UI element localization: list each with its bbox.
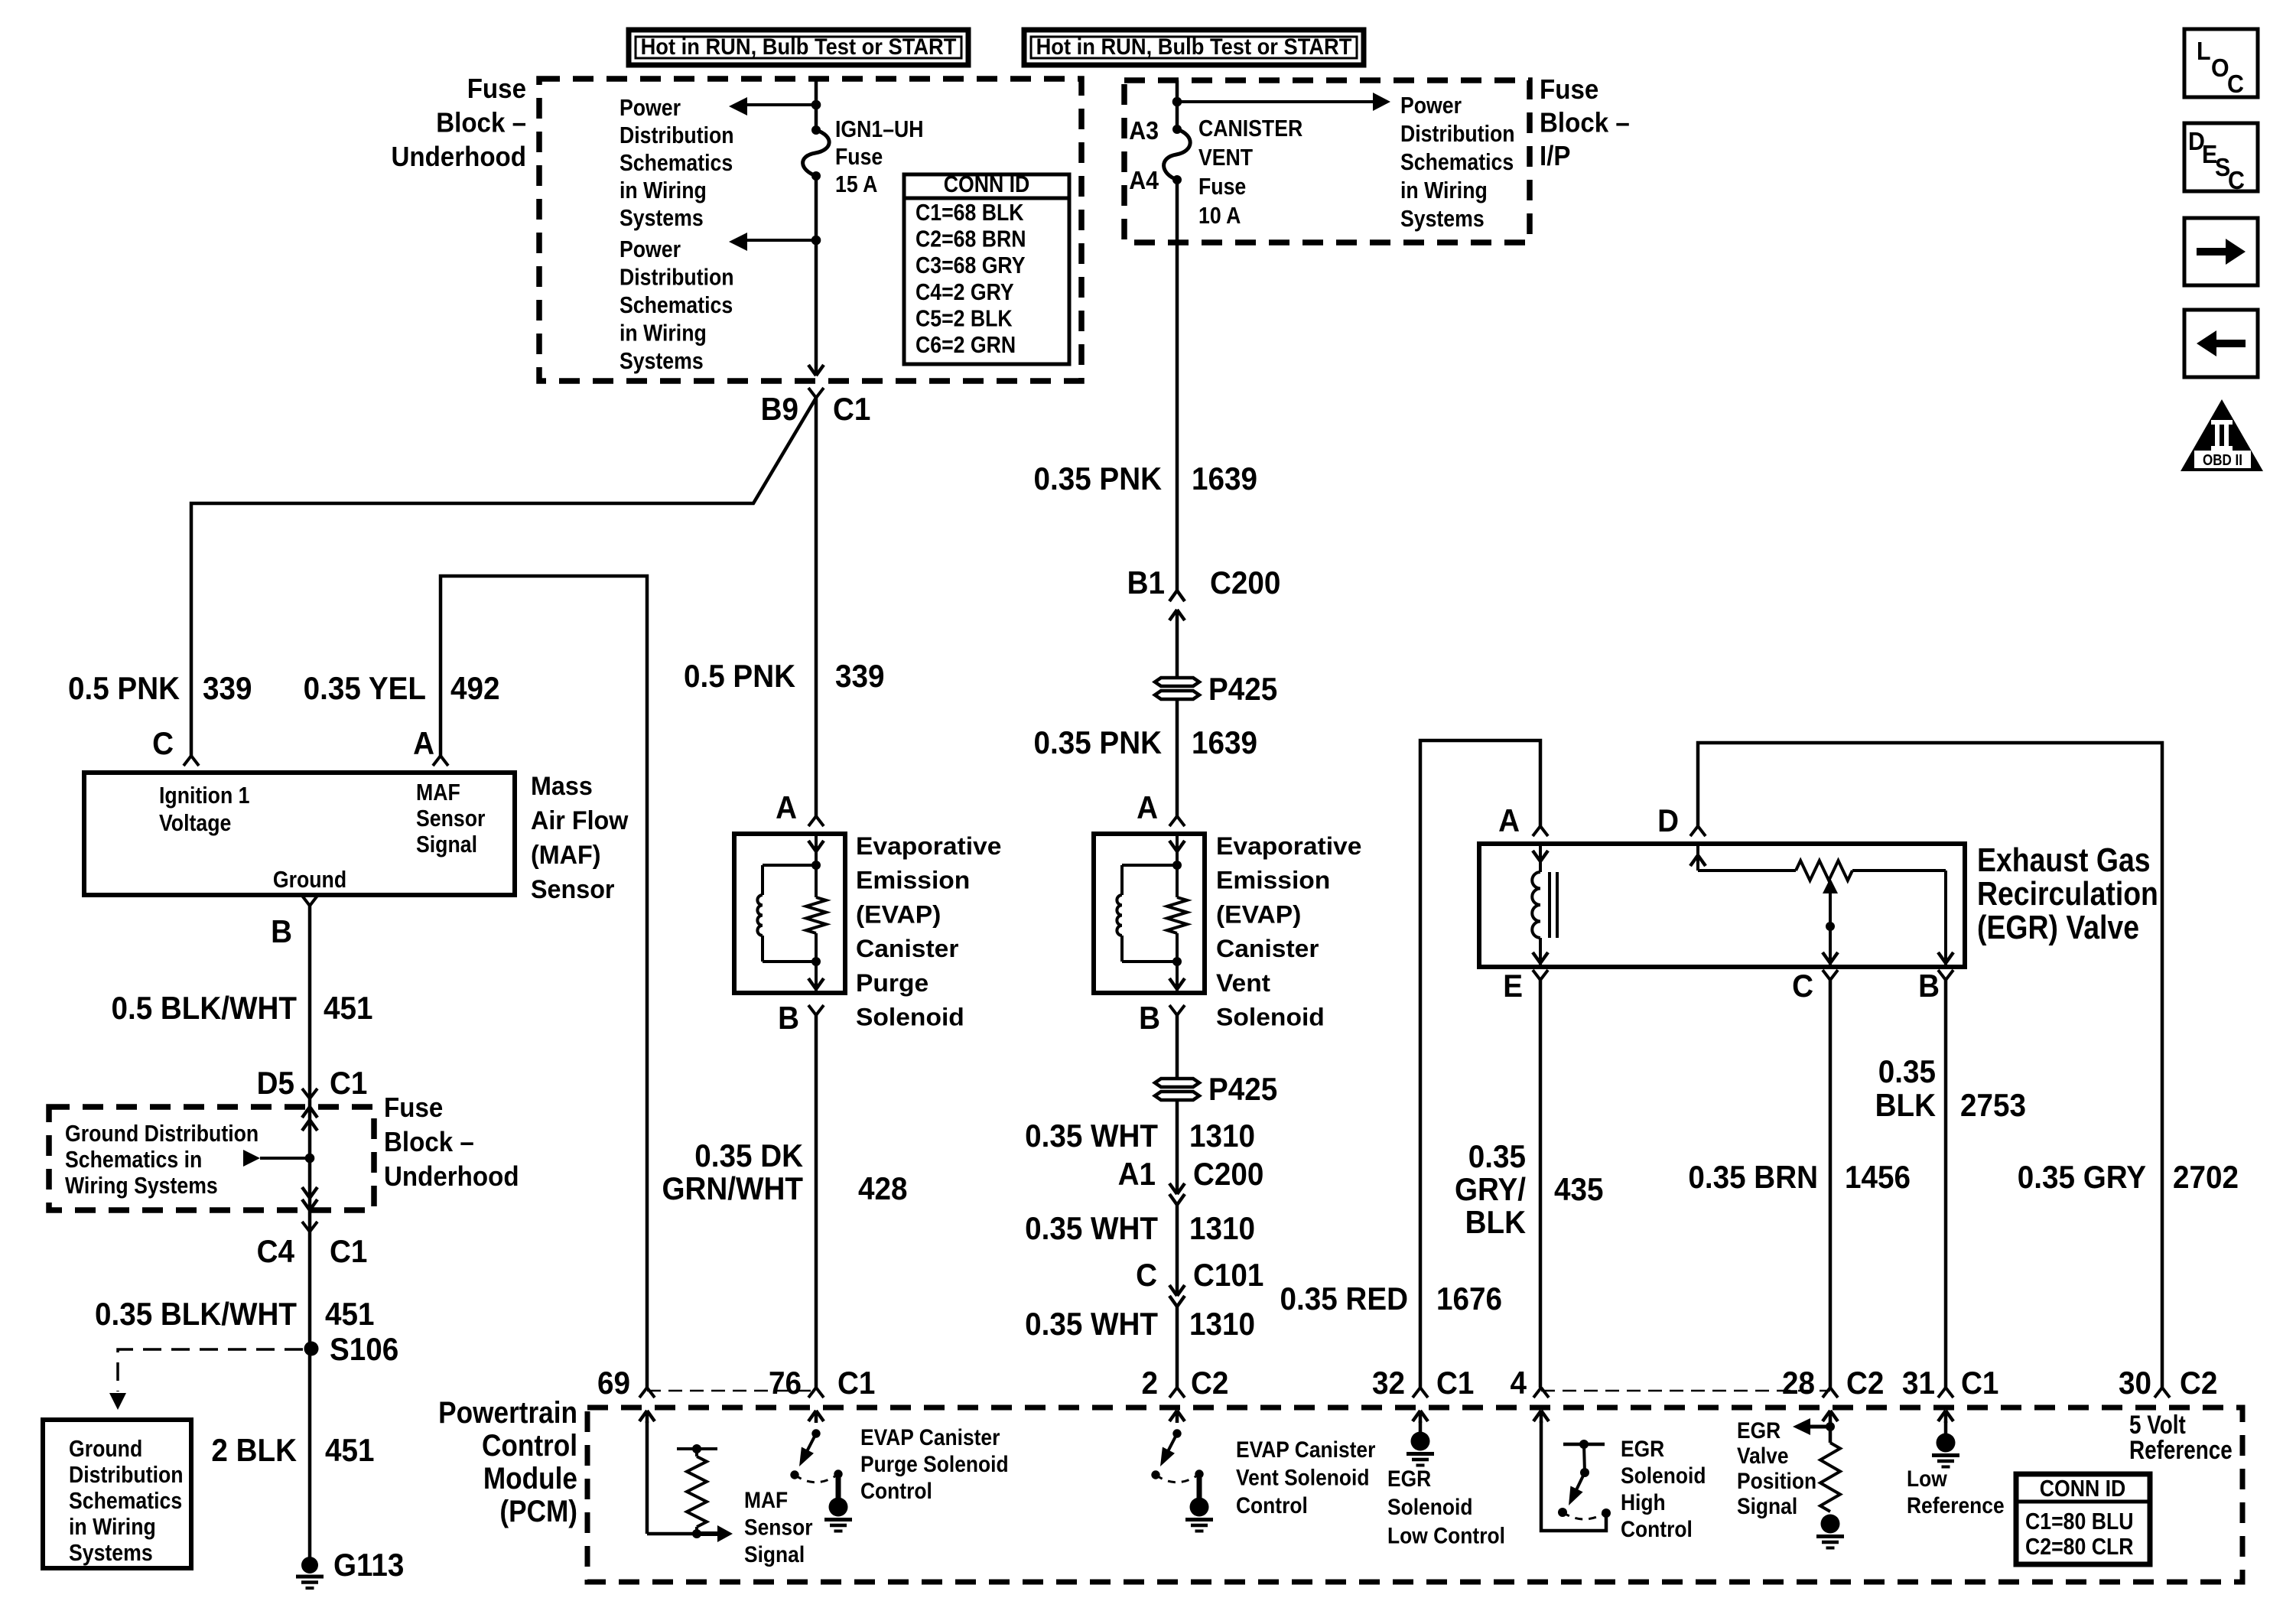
svg-text:Sensor: Sensor: [416, 805, 485, 832]
svg-text:Voltage: Voltage: [159, 810, 231, 836]
svg-text:1310: 1310: [1189, 1209, 1255, 1246]
svg-text:Schematics: Schematics: [69, 1488, 182, 1514]
svg-text:C: C: [1136, 1256, 1157, 1293]
svg-text:Wiring Systems: Wiring Systems: [65, 1173, 218, 1199]
svg-text:Control: Control: [482, 1428, 577, 1463]
svg-text:A3: A3: [1129, 116, 1159, 145]
svg-text:C1: C1: [833, 390, 870, 427]
svg-text:2 BLK: 2 BLK: [211, 1431, 297, 1468]
svg-text:Control: Control: [860, 1477, 932, 1503]
svg-text:A: A: [776, 789, 797, 825]
svg-text:C3=68 GRY: C3=68 GRY: [915, 252, 1025, 278]
svg-text:15 A: 15 A: [835, 171, 877, 197]
svg-text:0.35 DK: 0.35 DK: [694, 1137, 803, 1173]
svg-text:4: 4: [1511, 1364, 1527, 1401]
svg-text:Sensor: Sensor: [531, 875, 615, 904]
svg-text:B: B: [1918, 967, 1940, 1004]
svg-text:C1: C1: [330, 1232, 367, 1269]
svg-text:(MAF): (MAF): [531, 841, 600, 870]
svg-text:S106: S106: [330, 1330, 398, 1367]
svg-text:2753: 2753: [1960, 1086, 2026, 1123]
svg-text:IGN1–UH: IGN1–UH: [835, 116, 924, 142]
svg-text:High: High: [1621, 1489, 1666, 1515]
svg-text:MAF: MAF: [744, 1486, 788, 1512]
svg-text:Solenoid: Solenoid: [1621, 1462, 1706, 1488]
svg-text:1676: 1676: [1436, 1280, 1502, 1316]
svg-text:Underhood: Underhood: [384, 1162, 519, 1193]
svg-text:Exhaust Gas: Exhaust Gas: [1977, 841, 2151, 879]
svg-text:A: A: [1498, 802, 1520, 838]
svg-text:EGR: EGR: [1387, 1465, 1431, 1491]
svg-text:Solenoid: Solenoid: [856, 1003, 964, 1030]
svg-text:Position: Position: [1737, 1467, 1816, 1493]
svg-text:0.35 PNK: 0.35 PNK: [1034, 724, 1162, 760]
svg-text:B9: B9: [761, 390, 798, 427]
svg-text:0.35 YEL: 0.35 YEL: [304, 669, 426, 706]
svg-text:Hot in RUN, Bulb Test or START: Hot in RUN, Bulb Test or START: [641, 34, 957, 60]
svg-text:Control: Control: [1236, 1492, 1308, 1518]
svg-text:in Wiring: in Wiring: [69, 1514, 156, 1540]
svg-text:C1=68 BLK: C1=68 BLK: [915, 200, 1024, 226]
svg-text:Hot in RUN, Bulb Test or START: Hot in RUN, Bulb Test or START: [1036, 34, 1352, 60]
svg-text:BLK: BLK: [1465, 1203, 1526, 1240]
svg-text:C: C: [1792, 967, 1813, 1004]
svg-text:MAF: MAF: [416, 779, 460, 805]
svg-text:Ground: Ground: [273, 867, 346, 893]
svg-text:10 A: 10 A: [1198, 203, 1241, 229]
svg-text:A1: A1: [1118, 1155, 1156, 1192]
svg-text:Block –: Block –: [436, 108, 526, 138]
svg-text:(EGR) Valve: (EGR) Valve: [1977, 908, 2139, 946]
svg-text:O: O: [2211, 54, 2229, 82]
svg-text:492: 492: [450, 669, 499, 706]
svg-text:Recirculation: Recirculation: [1977, 874, 2158, 913]
svg-text:I/P: I/P: [1540, 142, 1570, 172]
svg-text:Evaporative: Evaporative: [856, 832, 1001, 860]
svg-text:C: C: [152, 724, 174, 761]
svg-text:C1: C1: [330, 1064, 367, 1101]
svg-text:Emission: Emission: [1216, 866, 1330, 893]
svg-text:Control: Control: [1621, 1515, 1693, 1541]
svg-text:435: 435: [1554, 1170, 1603, 1207]
svg-text:A: A: [413, 724, 434, 761]
svg-text:69: 69: [597, 1364, 630, 1401]
svg-text:in Wiring: in Wiring: [620, 177, 707, 203]
svg-text:Ground: Ground: [69, 1436, 142, 1462]
svg-text:E: E: [1503, 967, 1523, 1004]
svg-text:B: B: [1139, 999, 1160, 1036]
svg-text:1456: 1456: [1845, 1158, 1911, 1195]
svg-text:in Wiring: in Wiring: [620, 321, 707, 347]
svg-text:Reference: Reference: [2129, 1435, 2233, 1464]
svg-text:30: 30: [2119, 1364, 2151, 1401]
svg-text:C1=80 BLU: C1=80 BLU: [2025, 1508, 2133, 1535]
svg-text:C2: C2: [1191, 1364, 1228, 1401]
svg-text:Valve: Valve: [1737, 1442, 1789, 1468]
svg-text:Underhood: Underhood: [391, 142, 526, 173]
svg-text:CONN ID: CONN ID: [2040, 1476, 2126, 1502]
svg-text:0.5 PNK: 0.5 PNK: [68, 669, 180, 706]
svg-text:0.35 WHT: 0.35 WHT: [1025, 1209, 1158, 1246]
svg-text:C4=2 GRY: C4=2 GRY: [915, 279, 1014, 305]
svg-text:1310: 1310: [1189, 1117, 1255, 1154]
svg-text:(EVAP): (EVAP): [856, 900, 941, 928]
svg-text:451: 451: [324, 989, 372, 1026]
svg-text:GRN/WHT: GRN/WHT: [662, 1170, 803, 1206]
svg-text:451: 451: [325, 1295, 374, 1332]
svg-text:Schematics: Schematics: [620, 292, 733, 318]
svg-text:D: D: [1657, 802, 1679, 838]
svg-text:Power: Power: [620, 95, 681, 121]
svg-text:2: 2: [1142, 1364, 1158, 1401]
svg-text:EVAP Canister: EVAP Canister: [1236, 1436, 1375, 1462]
svg-text:339: 339: [835, 657, 884, 694]
svg-text:D5: D5: [257, 1064, 294, 1101]
svg-text:C200: C200: [1193, 1155, 1263, 1192]
svg-text:0.35 BLK/WHT: 0.35 BLK/WHT: [95, 1295, 297, 1332]
svg-text:1310: 1310: [1189, 1305, 1255, 1342]
svg-text:0.35 WHT: 0.35 WHT: [1025, 1117, 1158, 1154]
svg-text:VENT: VENT: [1198, 145, 1253, 171]
svg-text:(PCM): (PCM): [499, 1494, 577, 1528]
svg-text:1639: 1639: [1192, 460, 1257, 496]
svg-text:B1: B1: [1127, 564, 1165, 600]
svg-text:Fuse: Fuse: [467, 74, 526, 105]
svg-text:Ground Distribution: Ground Distribution: [65, 1121, 259, 1147]
svg-text:Signal: Signal: [1737, 1492, 1797, 1518]
svg-text:Reference: Reference: [1907, 1492, 2005, 1518]
svg-text:0.35 WHT: 0.35 WHT: [1025, 1305, 1158, 1342]
svg-text:Canister: Canister: [856, 935, 959, 962]
svg-text:0.35 PNK: 0.35 PNK: [1034, 460, 1162, 496]
svg-text:Power: Power: [620, 236, 681, 262]
svg-text:(EVAP): (EVAP): [1216, 900, 1301, 928]
svg-text:0.5 BLK/WHT: 0.5 BLK/WHT: [111, 989, 297, 1026]
svg-text:EGR: EGR: [1737, 1417, 1781, 1443]
svg-text:GRY/: GRY/: [1455, 1170, 1526, 1207]
svg-text:Mass: Mass: [531, 772, 593, 801]
svg-text:B: B: [271, 913, 292, 949]
svg-text:C1: C1: [837, 1364, 875, 1401]
svg-text:C2: C2: [2180, 1364, 2217, 1401]
svg-text:C1: C1: [1961, 1364, 1998, 1401]
svg-text:G113: G113: [333, 1546, 404, 1583]
svg-text:C200: C200: [1210, 564, 1280, 600]
svg-text:Solenoid: Solenoid: [1387, 1494, 1472, 1520]
svg-text:Canister: Canister: [1216, 935, 1319, 962]
svg-text:A4: A4: [1129, 166, 1159, 194]
svg-text:in Wiring: in Wiring: [1400, 177, 1488, 203]
svg-text:339: 339: [203, 669, 252, 706]
svg-text:0.35 BRN: 0.35 BRN: [1688, 1158, 1818, 1195]
svg-text:0.5 PNK: 0.5 PNK: [684, 657, 795, 694]
svg-text:L: L: [2197, 37, 2211, 65]
svg-text:1639: 1639: [1192, 724, 1257, 760]
svg-text:Ignition 1: Ignition 1: [159, 783, 249, 809]
svg-text:Schematics in: Schematics in: [65, 1147, 202, 1173]
svg-text:Signal: Signal: [744, 1541, 805, 1567]
svg-text:B: B: [778, 999, 799, 1036]
svg-text:C2=80 CLR: C2=80 CLR: [2025, 1534, 2134, 1560]
svg-text:Module: Module: [483, 1461, 577, 1495]
svg-text:Signal: Signal: [416, 832, 477, 858]
svg-text:C4: C4: [257, 1232, 295, 1269]
svg-text:Distribution: Distribution: [620, 122, 734, 148]
svg-text:31: 31: [1902, 1364, 1935, 1401]
svg-text:EGR: EGR: [1621, 1435, 1664, 1461]
svg-text:32: 32: [1372, 1364, 1405, 1401]
svg-text:Fuse: Fuse: [384, 1093, 443, 1124]
svg-text:Systems: Systems: [620, 205, 704, 231]
svg-text:Low Control: Low Control: [1387, 1522, 1505, 1548]
svg-text:76: 76: [769, 1364, 802, 1401]
svg-text:Fuse: Fuse: [1198, 174, 1246, 200]
svg-text:CANISTER: CANISTER: [1198, 116, 1302, 142]
svg-text:Fuse: Fuse: [835, 144, 883, 170]
svg-text:C: C: [2227, 70, 2244, 98]
svg-text:BLK: BLK: [1875, 1086, 1936, 1123]
svg-text:Purge Solenoid: Purge Solenoid: [860, 1450, 1009, 1476]
svg-text:428: 428: [858, 1170, 907, 1206]
svg-text:Schematics: Schematics: [620, 150, 733, 176]
svg-text:C: C: [2228, 166, 2245, 194]
svg-text:EVAP Canister: EVAP Canister: [860, 1424, 1000, 1450]
svg-text:Solenoid: Solenoid: [1216, 1003, 1325, 1030]
svg-text:Systems: Systems: [620, 348, 704, 374]
svg-text:451: 451: [325, 1431, 374, 1468]
svg-text:C2=68 BRN: C2=68 BRN: [915, 226, 1026, 252]
svg-text:Evaporative: Evaporative: [1216, 832, 1361, 860]
svg-text:Distribution: Distribution: [69, 1462, 184, 1488]
svg-text:Vent: Vent: [1216, 969, 1270, 997]
svg-text:Purge: Purge: [856, 969, 928, 997]
svg-text:OBD II: OBD II: [2203, 451, 2242, 469]
svg-text:Fuse: Fuse: [1540, 75, 1598, 106]
svg-text:Systems: Systems: [69, 1540, 153, 1566]
svg-text:CONN ID: CONN ID: [944, 171, 1030, 197]
svg-text:Low: Low: [1907, 1465, 1948, 1491]
svg-text:Air Flow: Air Flow: [531, 806, 629, 835]
svg-text:Schematics: Schematics: [1400, 149, 1514, 175]
svg-text:Sensor: Sensor: [744, 1514, 812, 1540]
svg-text:P425: P425: [1208, 670, 1277, 707]
svg-text:Block –: Block –: [384, 1128, 474, 1158]
svg-text:Block –: Block –: [1540, 108, 1630, 138]
svg-text:C101: C101: [1193, 1256, 1263, 1293]
svg-text:C2: C2: [1846, 1364, 1884, 1401]
svg-text:2702: 2702: [2173, 1158, 2239, 1195]
svg-text:0.35: 0.35: [1468, 1137, 1526, 1174]
svg-text:C5=2 BLK: C5=2 BLK: [915, 306, 1013, 332]
svg-text:Emission: Emission: [856, 866, 970, 893]
svg-text:Vent Solenoid: Vent Solenoid: [1236, 1464, 1370, 1490]
svg-text:Powertrain: Powertrain: [438, 1395, 577, 1430]
svg-text:28: 28: [1782, 1364, 1815, 1401]
svg-text:P425: P425: [1208, 1070, 1277, 1107]
svg-text:0.35 RED: 0.35 RED: [1280, 1280, 1408, 1316]
svg-text:C6=2 GRN: C6=2 GRN: [915, 332, 1016, 358]
svg-text:Power: Power: [1400, 93, 1462, 119]
svg-text:0.35: 0.35: [1878, 1053, 1936, 1089]
svg-text:A: A: [1137, 789, 1158, 825]
svg-text:Distribution: Distribution: [620, 265, 734, 291]
svg-text:0.35 GRY: 0.35 GRY: [2018, 1158, 2146, 1195]
svg-text:C1: C1: [1436, 1364, 1474, 1401]
svg-text:Systems: Systems: [1400, 206, 1485, 232]
svg-text:Distribution: Distribution: [1400, 121, 1515, 147]
